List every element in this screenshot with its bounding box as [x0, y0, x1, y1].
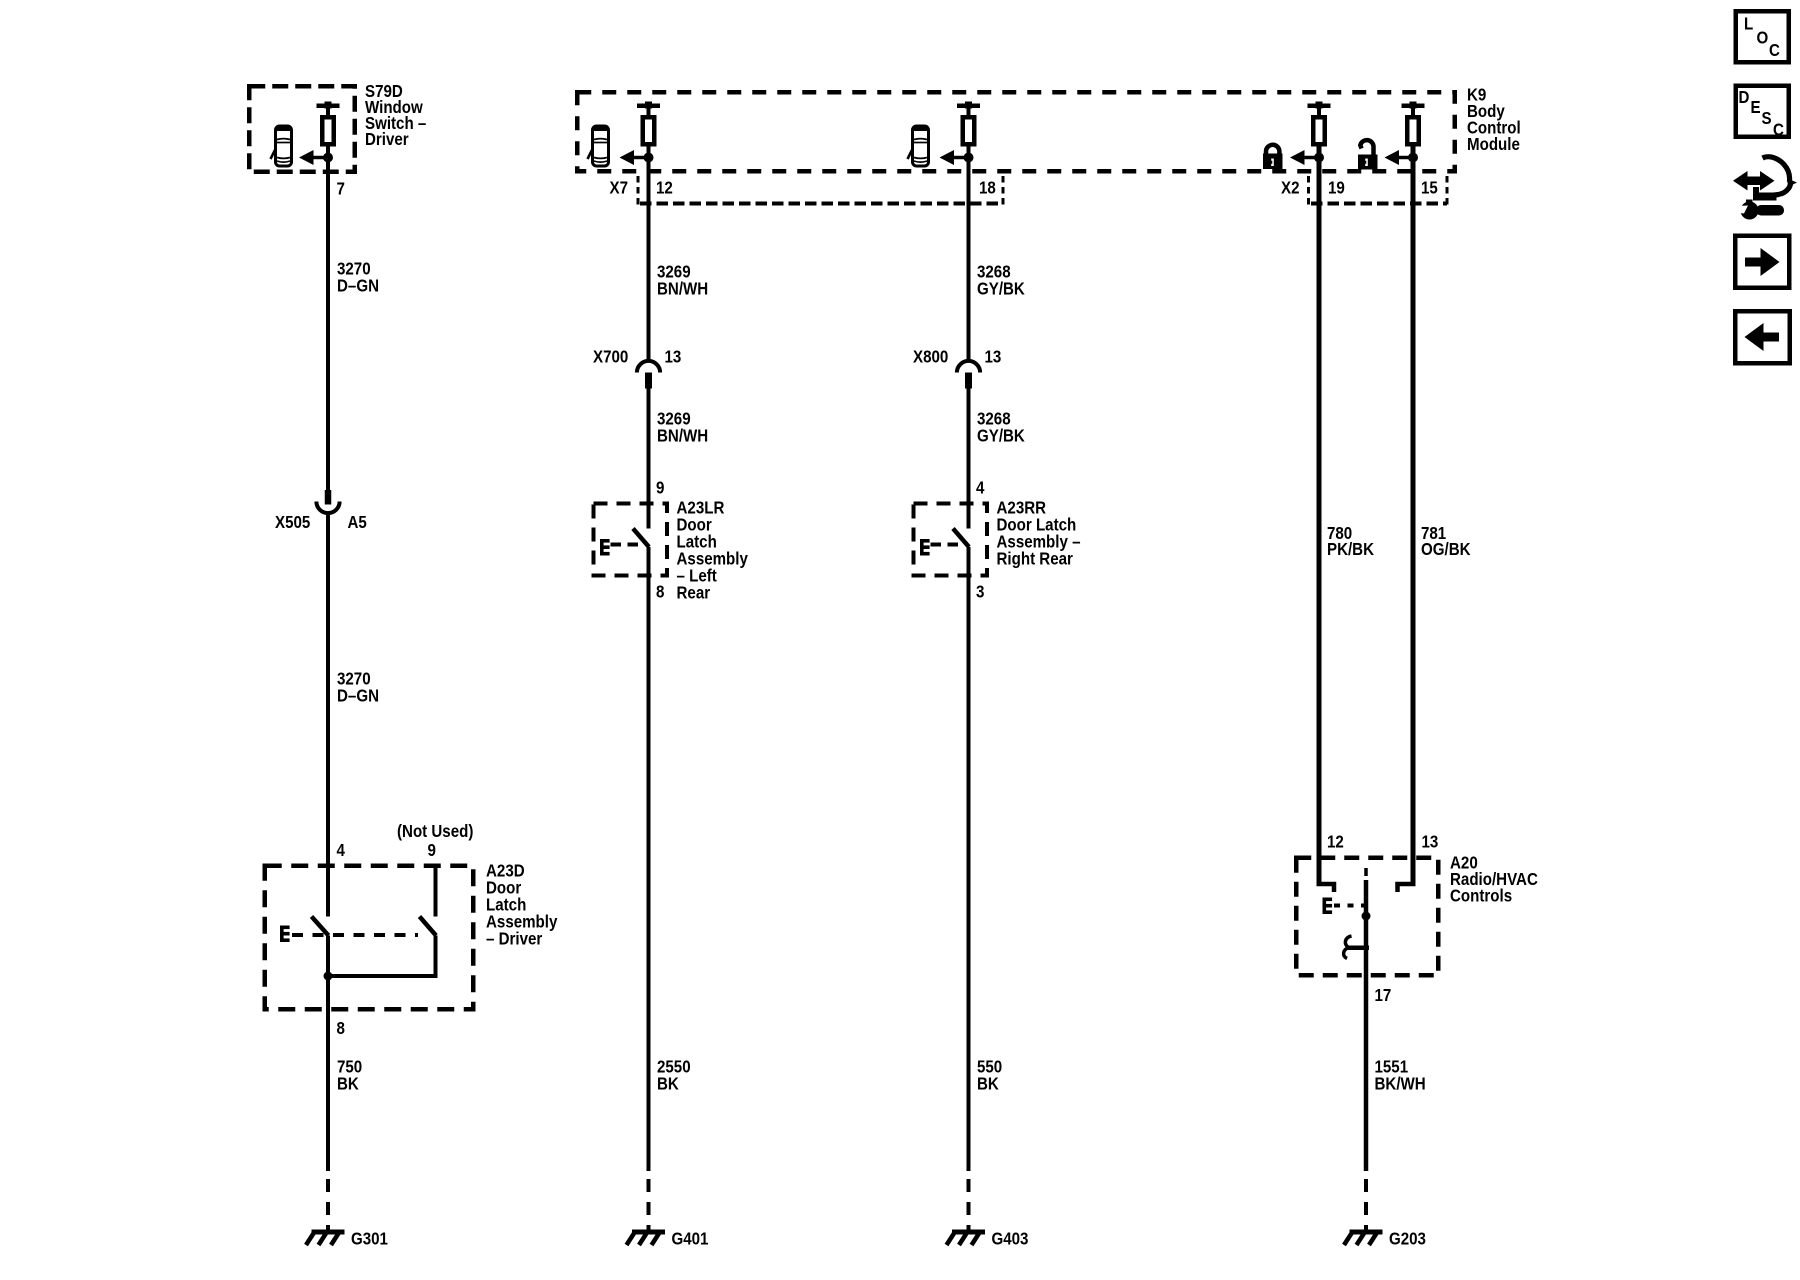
wire A20 center	[1364, 880, 1369, 1171]
wire below A23D right switch	[434, 936, 438, 977]
svg-text:X700: X700	[593, 346, 628, 367]
resistor driver cell S79D	[317, 102, 340, 145]
svg-text:O: O	[1757, 27, 1769, 48]
solenoid E symbol A23RR	[920, 539, 930, 556]
svg-text:GY/BK: GY/BK	[977, 278, 1025, 299]
svg-text:BK: BK	[337, 1073, 359, 1094]
DESC navigation box	[1736, 86, 1789, 140]
connector X2 strip bottom edge	[1311, 202, 1447, 206]
svg-text:S: S	[1762, 108, 1772, 129]
svg-text:E: E	[1751, 97, 1761, 118]
resistor driver cell BCM unlock circuit	[1402, 102, 1425, 145]
svg-text:Module: Module	[1467, 134, 1520, 155]
svg-text:8: 8	[337, 1018, 345, 1039]
svg-text:18: 18	[979, 177, 996, 198]
junction dot BCM unlock output	[1408, 153, 1418, 163]
svg-text:12: 12	[1327, 831, 1344, 852]
svg-text:Right Rear: Right Rear	[997, 548, 1074, 569]
dashed wire to ground G401	[647, 1179, 651, 1231]
label S79D Window Switch - Driver	[365, 81, 426, 150]
svg-text:Controls: Controls	[1450, 885, 1512, 906]
hotlink icon curved jump arrow	[1763, 157, 1798, 196]
junction dot A20	[1362, 912, 1371, 921]
wire 3270 D-GN lower	[326, 514, 330, 917]
arrow to closed padlock	[1290, 150, 1317, 165]
arrow to open padlock	[1385, 150, 1412, 165]
svg-text:BN/WH: BN/WH	[657, 425, 708, 446]
svg-text:7: 7	[337, 178, 345, 199]
arrow to car icon BCM left	[620, 150, 648, 165]
label A23D Door Latch Assembly - Driver	[486, 860, 558, 949]
svg-text:13: 13	[665, 346, 682, 367]
connector X505 pin A5	[316, 490, 339, 513]
wire stub A20 pin 13 step	[1398, 884, 1416, 892]
momentary switch spring A20	[1344, 936, 1369, 959]
switch blade A23RR	[953, 529, 969, 548]
svg-text:X800: X800	[913, 346, 948, 367]
svg-text:C: C	[1773, 119, 1784, 140]
wire below A23D left switch	[326, 936, 330, 1172]
svg-text:13: 13	[1422, 831, 1439, 852]
label 781 OG/BK	[1421, 523, 1471, 560]
label K9 Body Control Module	[1467, 84, 1521, 154]
junction dot BCM lock output	[1314, 153, 1324, 163]
junction dot A23D	[324, 972, 333, 981]
connector X7 separator right	[1002, 176, 1005, 206]
actuator dashed link A23RR	[931, 543, 965, 547]
svg-text:BN/WH: BN/WH	[657, 278, 708, 299]
resistor driver cell BCM window circuit left	[637, 102, 660, 145]
closed padlock icon	[1263, 145, 1283, 169]
label 1551 BK/WH	[1375, 1056, 1426, 1094]
wire 3268 GY/BK lower	[967, 389, 971, 529]
label A23LR Door Latch Assembly - Left Rear	[677, 497, 749, 603]
ground G401	[627, 1230, 666, 1246]
svg-text:C: C	[1769, 40, 1780, 61]
switch blade A23D left	[312, 917, 329, 936]
svg-text:BK/WH: BK/WH	[1375, 1073, 1426, 1094]
svg-text:X505: X505	[275, 512, 310, 533]
switch blade A23LR	[633, 529, 649, 548]
label 3270 D-GN lower	[337, 668, 379, 706]
arrow to car icon S79D	[299, 150, 327, 165]
svg-text:4: 4	[976, 477, 985, 498]
wire 3268 GY/BK upper	[967, 146, 971, 362]
connector X700 pin 13	[637, 361, 660, 389]
svg-text:PK/BK: PK/BK	[1327, 539, 1374, 560]
label 3269 BN/WH upper	[657, 261, 708, 299]
label 3268 GY/BK upper	[977, 261, 1025, 299]
svg-text:13: 13	[985, 346, 1002, 367]
svg-text:BK: BK	[657, 1073, 679, 1094]
connector X7 separator left	[637, 176, 640, 206]
hotlink icon double arrow	[1733, 171, 1775, 191]
svg-text:G203: G203	[1389, 1228, 1426, 1249]
svg-text:D–GN: D–GN	[337, 685, 379, 706]
svg-text:D: D	[1739, 87, 1750, 108]
connector X2 separator right	[1446, 176, 1449, 206]
dashed wire to ground G403	[967, 1179, 971, 1231]
open padlock icon	[1358, 140, 1378, 169]
svg-text:GY/BK: GY/BK	[977, 425, 1025, 446]
dashed wire to ground G203	[1364, 1179, 1368, 1231]
svg-text:BK: BK	[977, 1073, 999, 1094]
wire 3270 D-GN from S79D pin 7	[326, 146, 330, 491]
dashed wire to ground G301	[326, 1179, 330, 1231]
svg-text:17: 17	[1375, 985, 1392, 1006]
svg-text:G403: G403	[992, 1228, 1029, 1249]
svg-text:12: 12	[656, 177, 673, 198]
svg-text:X2: X2	[1281, 177, 1299, 198]
svg-text:OG/BK: OG/BK	[1421, 539, 1471, 560]
car icon BCM right	[908, 126, 929, 166]
svg-text:A5: A5	[348, 512, 367, 533]
svg-text:Rear: Rear	[677, 582, 711, 603]
junction dot BCM right output	[964, 153, 974, 163]
actuator dashed link A20	[1334, 904, 1368, 908]
label 2550 BK	[657, 1056, 691, 1094]
svg-text:9: 9	[428, 840, 436, 861]
resistor driver cell BCM window circuit right	[957, 102, 980, 145]
resistor driver cell BCM lock circuit	[1308, 102, 1331, 145]
label X505 / A5	[275, 512, 367, 533]
ground G403	[947, 1230, 986, 1246]
svg-text:4: 4	[337, 840, 346, 861]
svg-text:8: 8	[656, 581, 664, 602]
wire stub A20 pin 12 step	[1317, 884, 1335, 892]
arrow to car icon BCM right	[940, 150, 968, 165]
link wire A23D switches	[328, 974, 438, 978]
label 550 BK	[977, 1056, 1002, 1094]
solenoid E symbol A20	[1323, 898, 1333, 915]
radio HVAC controls A20 dashed box	[1296, 858, 1438, 976]
hotlink icon wrench	[1736, 200, 1785, 220]
ground G301	[306, 1230, 345, 1246]
junction dot BCM left output	[644, 153, 654, 163]
right arrow navigation box	[1735, 236, 1789, 288]
svg-text:3: 3	[976, 581, 984, 602]
connector X7 strip bottom edge	[640, 202, 1003, 206]
body control module K9 dashed box	[577, 92, 1455, 171]
label 3269 BN/WH lower	[657, 408, 708, 446]
wire 780 PK/BK	[1317, 146, 1322, 883]
junction dot S79D output	[323, 153, 333, 163]
label 780 PK/BK	[1327, 523, 1374, 560]
label 3268 GY/BK lower	[977, 408, 1025, 446]
car icon S79D	[271, 126, 292, 166]
wire 2550 BK	[647, 547, 651, 1171]
label 3270 D-GN upper	[337, 258, 379, 296]
svg-text:9: 9	[656, 477, 664, 498]
solenoid E symbol A23LR	[600, 539, 610, 556]
left arrow navigation box	[1735, 311, 1790, 363]
svg-text:L: L	[1744, 13, 1753, 34]
svg-text:19: 19	[1328, 177, 1345, 198]
wire 550 BK	[967, 547, 971, 1171]
svg-text:(Not Used): (Not Used)	[397, 821, 473, 842]
switch blade A23D right	[420, 917, 437, 936]
door latch A23LR dashed box	[594, 504, 668, 576]
label A20 Radio/HVAC Controls	[1450, 852, 1538, 906]
dash stub A20 center top	[1364, 868, 1368, 876]
label X700 / 13	[593, 346, 681, 367]
label A23RR Door Latch Assembly - Right Rear	[997, 497, 1081, 569]
svg-text:Driver: Driver	[365, 129, 409, 150]
svg-text:15: 15	[1421, 177, 1438, 198]
svg-text:– Driver: – Driver	[486, 928, 543, 949]
connector X800 pin 13	[957, 361, 980, 389]
door latch A23RR dashed box	[914, 504, 988, 576]
door latch assembly A23D dashed box	[265, 866, 474, 1010]
ground G203	[1344, 1230, 1383, 1246]
wire 781 OG/BK	[1411, 146, 1416, 883]
label 750 BK	[337, 1056, 362, 1094]
window switch S79D dashed box	[249, 86, 355, 172]
LOC navigation box	[1736, 11, 1789, 62]
connector X2 separator left	[1307, 176, 1310, 206]
hotlink icon step bar	[1753, 187, 1777, 201]
solenoid E symbol A23D	[280, 926, 290, 943]
wire 3269 BN/WH upper	[647, 146, 651, 362]
stub wire A23D pin 9	[434, 864, 438, 917]
label X800 / 13	[913, 346, 1001, 367]
actuator dashed link A23D	[292, 933, 418, 937]
svg-text:X7: X7	[610, 177, 628, 198]
actuator dashed link A23LR	[611, 543, 645, 547]
svg-text:G401: G401	[672, 1228, 709, 1249]
wire 3269 BN/WH lower	[647, 389, 651, 529]
svg-text:D–GN: D–GN	[337, 275, 379, 296]
car icon BCM left	[588, 126, 609, 166]
svg-text:G301: G301	[351, 1228, 388, 1249]
